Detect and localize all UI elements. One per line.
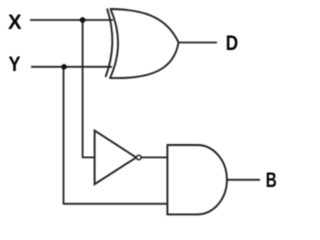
wire XOR output to D: [179, 42, 218, 44]
inverter U2 bubble: [137, 155, 142, 160]
wire Y branch to AND bottom input: [64, 67, 168, 204]
node junction on Y wire: [61, 64, 67, 70]
XOR gate U1 body: [110, 9, 179, 78]
svg-text:B: B: [266, 167, 277, 192]
svg-text:D: D: [226, 30, 238, 55]
svg-text:Y: Y: [9, 51, 21, 76]
wire AND output to B: [227, 179, 260, 181]
wire X branch to inverter: [83, 20, 95, 157]
XOR gate U1 input arc (extra xor curve): [106, 9, 113, 78]
wire X input: [30, 19, 113, 21]
AND gate U3 body: [167, 145, 227, 214]
inverter U2 triangle: [95, 131, 137, 185]
wire inverter output to AND top input: [142, 156, 168, 158]
node junction on X wire: [80, 17, 86, 23]
svg-text:X: X: [8, 9, 22, 34]
wire Y input: [31, 66, 112, 68]
